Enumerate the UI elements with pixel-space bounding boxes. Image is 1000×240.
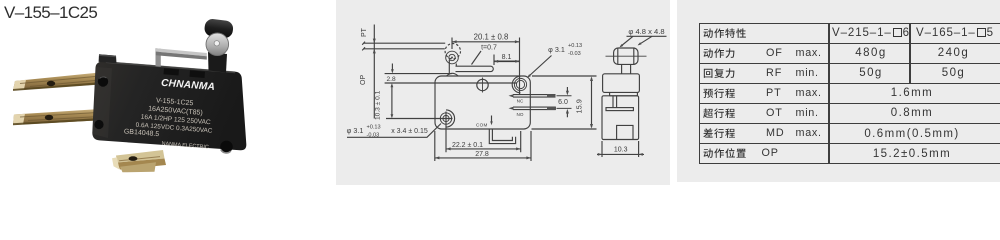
roller (operating position): [446, 51, 459, 64]
side view lower body: [602, 96, 639, 140]
row 回复力: [703, 68, 737, 81]
row 动作力: [703, 48, 737, 61]
body left face sheen: [93, 67, 113, 138]
plunger hole: [482, 78, 484, 93]
left rivet: [98, 76, 108, 86]
table hline 4: [699, 103, 1000, 104]
roller free position (dashed): [445, 44, 460, 59]
NC terminal: [513, 95, 556, 98]
hole centre line: [386, 118, 453, 120]
svg-text:6.0: 6.0: [558, 99, 568, 106]
15.9 dimension: [532, 76, 597, 129]
terminal NC (lower-left blade): [13, 109, 106, 125]
side view upper body: [603, 74, 640, 93]
svg-text:+0.13: +0.13: [568, 43, 582, 49]
20.1 dimension: [452, 38, 520, 95]
row 超行程: [703, 108, 737, 121]
roller metal hub disc: [206, 33, 229, 56]
table panel background: [677, 0, 1000, 182]
table hline 0: [699, 23, 1000, 24]
table hline 3: [699, 83, 1000, 84]
terminal COM (upper-left blade): [13, 72, 104, 90]
2.8 dimension: [385, 74, 517, 83]
table hline 5: [699, 123, 1000, 124]
mounting hole bottom-left: [440, 113, 451, 124]
svg-text:t=0.7: t=0.7: [481, 45, 497, 52]
table vline left: [699, 23, 700, 164]
COM terminal (L-shape): [489, 129, 515, 143]
bottom-right hole: [220, 141, 232, 153]
svg-text:COM: COM: [476, 123, 488, 128]
row 差行程: [703, 128, 737, 141]
side view centre line: [606, 55, 647, 57]
side view lever neck: [622, 64, 631, 73]
svg-text:2.8: 2.8: [387, 76, 396, 83]
svg-text:22.2 ± 0.1: 22.2 ± 0.1: [452, 142, 483, 149]
switch body: [92, 61, 246, 150]
table hline 1: [699, 43, 1000, 44]
switch body outline: [435, 76, 530, 129]
terminal NO (bottom blade): [116, 150, 165, 163]
side view roller: [614, 48, 638, 64]
lower-left rivet: [94, 120, 103, 129]
6.0 dimension: [557, 96, 572, 109]
top slots: [164, 68, 180, 75]
header row: [703, 28, 748, 41]
svg-text:x 3.4 ± 0.15: x 3.4 ± 0.15: [391, 128, 428, 135]
drawing panel background: [336, 0, 670, 185]
svg-text:8.1: 8.1: [502, 54, 512, 61]
NO terminal: [513, 107, 556, 110]
svg-text:-0.03: -0.03: [568, 51, 581, 57]
svg-text:φ 3.1: φ 3.1: [548, 45, 565, 54]
row 预行程: [703, 88, 737, 101]
table hline 7: [699, 163, 1000, 164]
lever arm: [156, 48, 161, 67]
table vline col3: [909, 23, 910, 84]
top-left hinge tab: [99, 54, 117, 63]
product title: [4, 3, 97, 23]
side view 10.3 dimension: [602, 141, 639, 157]
mounting hole top-right: [514, 78, 526, 90]
table vline col2: [828, 23, 829, 164]
roller: [204, 18, 234, 39]
svg-text:10.3 ± 0.1: 10.3 ± 0.1: [375, 90, 382, 120]
svg-text:10.3: 10.3: [614, 147, 628, 154]
svg-text:PT: PT: [361, 27, 368, 37]
svg-text:+0.13: +0.13: [367, 124, 381, 130]
8.1 dimension: [493, 55, 495, 66]
plunger tab: [213, 64, 226, 72]
10.3 dimension: [391, 85, 393, 117]
svg-text:NO: NO: [517, 112, 524, 117]
svg-text:φ 4.8 x 4.8: φ 4.8 x 4.8: [628, 27, 664, 36]
svg-text:20.1 ± 0.8: 20.1 ± 0.8: [474, 32, 509, 41]
spec table: [0, 0, 1, 1]
svg-text:φ 3.1: φ 3.1: [347, 126, 364, 135]
svg-text:OP: OP: [360, 75, 367, 85]
svg-text:NC: NC: [517, 98, 524, 103]
svg-text:27.8: 27.8: [475, 151, 489, 158]
PT dimension: [373, 25, 375, 119]
27.8 dimension: [435, 131, 531, 161]
row 动作位置: [703, 148, 748, 161]
table hline 2: [699, 63, 1000, 64]
svg-text:15.9: 15.9: [574, 99, 583, 113]
body printed text: [123, 75, 217, 151]
shadow under roller hub: [208, 52, 227, 73]
22.2 dimension: [446, 112, 521, 153]
table hline 6: [699, 143, 1000, 144]
body top edge highlight: [106, 61, 235, 73]
roller lever: [456, 66, 494, 71]
